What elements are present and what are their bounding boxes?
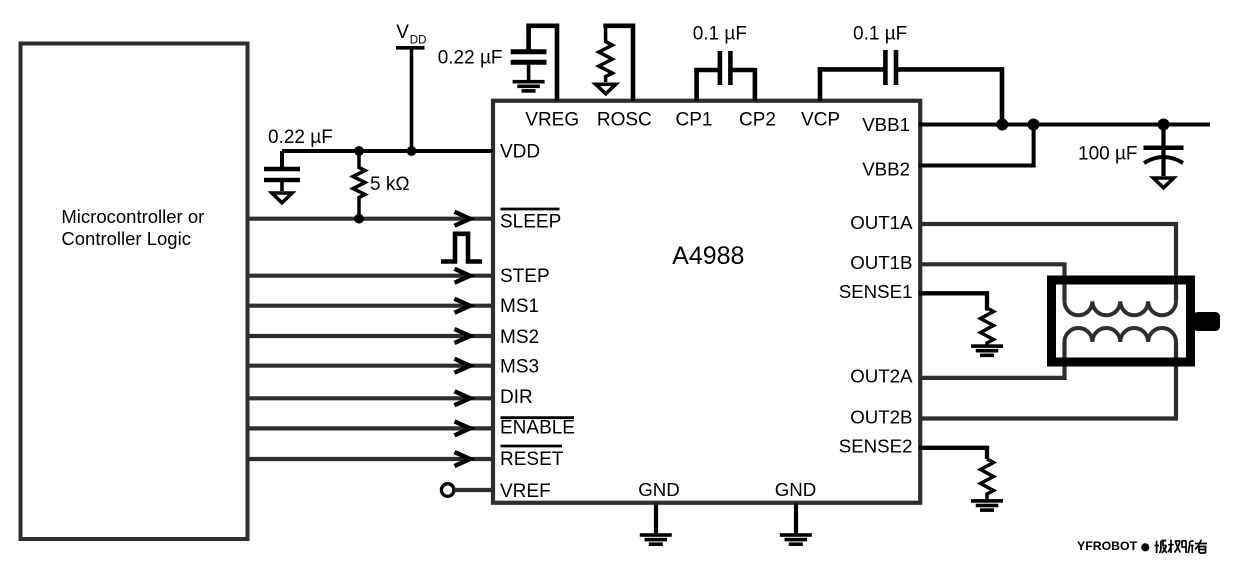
svg-text:SENSE1: SENSE1 <box>839 281 913 302</box>
capacitor C1 0.22uF <box>264 127 333 191</box>
svg-text:DD: DD <box>410 35 427 47</box>
svg-text:0.1 µF: 0.1 µF <box>853 24 907 45</box>
svg-text:VBB2: VBB2 <box>862 159 910 180</box>
svg-text:SLEEP: SLEEP <box>500 211 561 232</box>
node junction VCP/VBB1 <box>996 119 1008 131</box>
svg-text:VBB1: VBB1 <box>862 114 910 135</box>
wire GND pin 2 <box>794 504 798 534</box>
ground (bars) GND2 <box>780 533 812 546</box>
svg-text:RESET: RESET <box>500 449 564 470</box>
svg-text:SENSE2: SENSE2 <box>839 436 913 457</box>
wire MS1 <box>249 304 493 308</box>
node junction VBB2/VBB1 <box>1028 119 1040 131</box>
arrow MS3 <box>455 359 471 373</box>
wire OUT1A <box>919 224 1176 301</box>
ground (hollow triangle) for C1 <box>272 193 292 203</box>
wire GND pin 1 <box>654 504 658 534</box>
VREF input terminal circle <box>441 484 454 497</box>
hanzi 所 <box>1182 541 1194 553</box>
ground (hollow triangle) for C5 <box>1153 178 1173 188</box>
node junction C5/VBB1 <box>1158 119 1170 131</box>
pin labels left <box>500 142 575 502</box>
svg-text:VDD: VDD <box>500 142 540 163</box>
svg-text:MS3: MS3 <box>500 357 539 378</box>
wire SENSE2 <box>919 448 987 459</box>
pin labels right <box>839 114 913 457</box>
capacitor C5 100uF <box>1078 125 1184 177</box>
svg-text:CP2: CP2 <box>739 109 776 130</box>
svg-text:VREF: VREF <box>500 481 551 502</box>
motor coil L1 (top winding) <box>1065 301 1177 315</box>
wire SLEEP <box>249 217 493 221</box>
arrow STEP <box>455 269 471 283</box>
svg-text:ENABLE: ENABLE <box>500 418 575 439</box>
wire STEP <box>249 274 493 278</box>
supply VDD symbol <box>396 22 426 151</box>
svg-text:CP1: CP1 <box>676 109 713 130</box>
svg-text:OUT1A: OUT1A <box>850 212 913 233</box>
ground (hollow triangle) for R2 <box>596 84 616 94</box>
wire VBB2 <box>919 125 1034 166</box>
wire DIR <box>249 396 493 400</box>
svg-text:STEP: STEP <box>500 266 550 287</box>
IC U1 A4988 box <box>493 101 920 503</box>
wire RESET <box>249 457 493 461</box>
wire VDD net <box>282 149 493 153</box>
ground (bars) for R4 <box>971 499 1003 512</box>
watermark YFROBOT <box>1077 539 1207 553</box>
arrow SLEEP <box>455 212 471 226</box>
hanzi 有 <box>1195 540 1207 553</box>
ground (bars) for C2 <box>513 80 545 93</box>
svg-text:GND: GND <box>638 479 680 500</box>
ground (bars) for R3 <box>971 344 1003 357</box>
svg-text:MS1: MS1 <box>500 296 539 317</box>
microcontroller box <box>21 44 248 540</box>
svg-text:0.22 µF: 0.22 µF <box>438 48 503 69</box>
svg-text:GND: GND <box>775 479 817 500</box>
svg-text:VREG: VREG <box>525 109 579 130</box>
svg-text:ROSC: ROSC <box>597 109 652 130</box>
svg-text:VCP: VCP <box>801 109 840 130</box>
svg-text:OUT2A: OUT2A <box>850 366 913 387</box>
capacitor C2 0.22uF (VREG) <box>438 24 557 102</box>
wire ENABLE <box>249 426 493 430</box>
svg-text:OUT1B: OUT1B <box>850 252 912 273</box>
svg-text:MS2: MS2 <box>500 327 539 348</box>
svg-text:V: V <box>396 22 409 43</box>
motor coil L2 (bottom winding) <box>1065 328 1177 342</box>
wire SENSE1 <box>919 293 987 310</box>
resistor R2 ROSC <box>599 24 633 102</box>
arrow MS2 <box>455 329 471 343</box>
svg-text:DIR: DIR <box>500 387 533 408</box>
node junction R1/SLEEP <box>354 214 364 224</box>
motor M1 body <box>1052 280 1191 362</box>
pin labels top <box>525 109 840 130</box>
motor M1 shaft <box>1193 312 1220 331</box>
resistor R1 5k <box>353 151 410 219</box>
svg-text:0.1 µF: 0.1 µF <box>693 24 747 45</box>
svg-text:Controller Logic: Controller Logic <box>61 228 191 249</box>
svg-text:5 kΩ: 5 kΩ <box>370 174 410 195</box>
step pulse symbol <box>441 234 482 262</box>
svg-text:A4988: A4988 <box>672 242 744 270</box>
capacitor C4 0.1uF (VCP) <box>818 24 1002 125</box>
resistor R4 sense2 <box>981 459 994 499</box>
svg-text:OUT2B: OUT2B <box>850 406 912 427</box>
arrow ENABLE <box>455 421 471 435</box>
wire OUT1B <box>919 264 1065 301</box>
capacitor C3 0.1uF (CP1-CP2) <box>693 24 755 102</box>
ground (bars) GND1 <box>640 533 672 546</box>
wire VREF <box>454 488 493 492</box>
svg-text:0.22 µF: 0.22 µF <box>268 127 333 148</box>
pin labels bottom <box>638 479 816 500</box>
arrow DIR <box>455 391 471 405</box>
arrow RESET <box>455 452 471 466</box>
svg-text:100 µF: 100 µF <box>1078 144 1138 165</box>
wire OUT2A <box>919 342 1065 378</box>
hanzi 权 <box>1168 540 1180 553</box>
hanzi 版 <box>1155 541 1167 554</box>
wire OUT2B <box>919 342 1176 419</box>
resistor R3 sense1 <box>981 308 994 345</box>
node junction VDD/C1 <box>354 146 364 156</box>
wire MS2 <box>249 334 493 338</box>
svg-text:YFROBOT: YFROBOT <box>1077 539 1138 553</box>
wire MS3 <box>249 364 493 368</box>
node junction VDD supply <box>407 146 417 156</box>
arrow MS1 <box>455 299 471 313</box>
wire VBB1 <box>919 123 1210 127</box>
svg-text:Microcontroller or: Microcontroller or <box>61 206 204 227</box>
